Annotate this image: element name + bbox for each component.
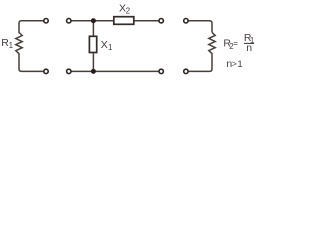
svg-text:1: 1 — [9, 41, 14, 50]
wire: middle section top-right (X2 box to terminal) — [135, 20, 159, 22]
terminal: left port top — [44, 19, 48, 23]
svg-text:>: > — [232, 58, 237, 68]
wire: left section bottom (R1 bottom lead to terminal) — [19, 53, 44, 71]
terminal: middle right bottom — [159, 69, 163, 73]
wire: middle section top-left (terminal to X2 box) — [71, 20, 113, 22]
terminal: right port bottom — [184, 69, 188, 73]
reactance X1 shunt box — [89, 36, 96, 52]
wire: middle section bottom — [71, 70, 158, 72]
wire: shunt lower (X1 box to bottom junction) — [92, 53, 94, 71]
junction: bottom node — [91, 69, 96, 74]
svg-text:1: 1 — [108, 43, 113, 52]
terminal: middle left bottom — [67, 69, 71, 73]
reactance X2 series box — [114, 17, 134, 25]
resistor R2 zigzag — [209, 32, 215, 53]
svg-text:=: = — [233, 39, 238, 48]
svg-text:1: 1 — [237, 59, 242, 70]
wire: shunt upper (top junction to X1 box) — [92, 21, 94, 36]
wire: right section top (terminal to R2) — [188, 21, 212, 33]
svg-text:X: X — [101, 39, 108, 51]
wire: right section bottom (R2 to terminal) — [188, 53, 212, 71]
fraction bar — [244, 42, 254, 44]
wire: left section top (R1 top lead to terminal) — [19, 21, 44, 33]
resistor R1 zigzag — [16, 33, 22, 54]
svg-text:n: n — [246, 42, 252, 54]
terminal: middle right top — [159, 19, 163, 23]
terminal: middle left top — [67, 19, 71, 23]
junction: top node — [91, 18, 96, 23]
svg-text:2: 2 — [126, 7, 131, 16]
terminal: right port top — [184, 19, 188, 23]
terminal: left port bottom — [44, 69, 48, 73]
